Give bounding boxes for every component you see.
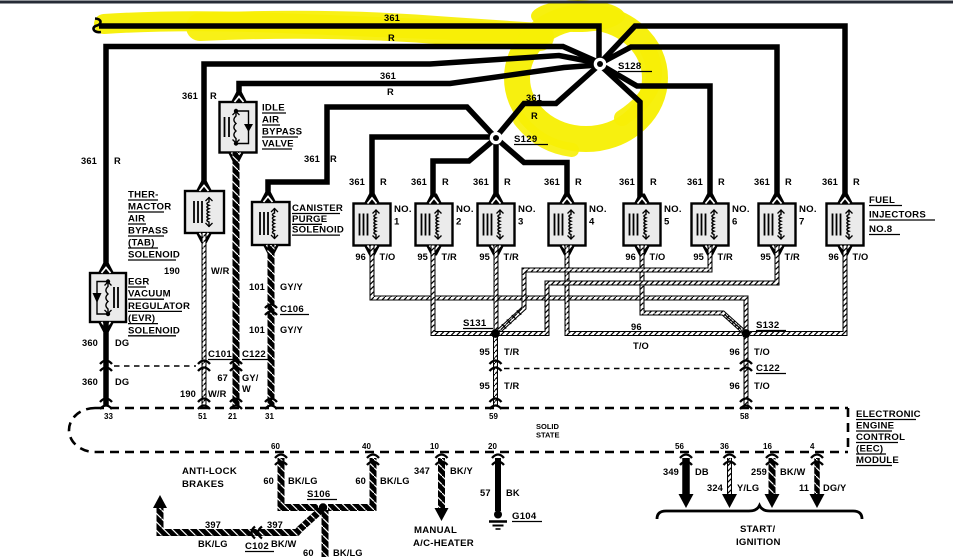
svg-text:R: R [387, 87, 394, 97]
svg-text:361: 361 [81, 156, 97, 166]
svg-text:361: 361 [526, 93, 542, 103]
svg-text:R: R [210, 91, 217, 101]
svg-text:C106: C106 [280, 304, 304, 315]
svg-text:Y/LG: Y/LG [737, 483, 759, 493]
svg-text:33: 33 [104, 412, 113, 421]
svg-text:MACTOR: MACTOR [128, 202, 171, 213]
svg-text:BK/Y: BK/Y [450, 466, 473, 476]
svg-text:SOLENOID: SOLENOID [128, 325, 180, 336]
svg-text:MANUAL: MANUAL [414, 525, 457, 536]
svg-text:361: 361 [182, 91, 198, 101]
svg-text:BK: BK [506, 488, 520, 498]
svg-text:R: R [330, 154, 337, 164]
svg-text:NO.: NO. [394, 204, 412, 215]
svg-text:7: 7 [799, 217, 805, 228]
svg-text:397: 397 [267, 520, 283, 530]
svg-text:IGNITION: IGNITION [736, 537, 781, 548]
svg-text:R: R [650, 177, 657, 187]
svg-text:S129: S129 [514, 134, 537, 145]
svg-text:59: 59 [489, 412, 498, 421]
svg-text:56: 56 [675, 442, 684, 451]
svg-text:96: 96 [625, 252, 636, 262]
svg-text:36: 36 [720, 442, 729, 451]
svg-text:190: 190 [180, 389, 196, 399]
svg-text:S106: S106 [307, 489, 330, 500]
svg-text:BK/W: BK/W [780, 467, 805, 477]
svg-text:G104: G104 [512, 511, 537, 522]
svg-text:R: R [442, 177, 449, 187]
svg-text:C102: C102 [245, 541, 269, 552]
svg-text:DB: DB [695, 467, 709, 477]
svg-text:5: 5 [664, 217, 670, 228]
svg-text:GY/Y: GY/Y [280, 282, 303, 292]
svg-text:R: R [718, 177, 725, 187]
svg-text:REGULATOR: REGULATOR [128, 301, 190, 312]
svg-text:T/O: T/O [853, 252, 869, 262]
svg-text:(EVR): (EVR) [128, 313, 155, 324]
svg-text:T/R: T/R [442, 252, 458, 262]
svg-text:BK/LG: BK/LG [333, 548, 363, 557]
svg-text:349: 349 [663, 467, 679, 477]
svg-text:BK/LG: BK/LG [288, 476, 318, 486]
svg-text:16: 16 [763, 442, 772, 451]
svg-text:GY/: GY/ [242, 373, 259, 383]
svg-text:DG/Y: DG/Y [823, 483, 847, 493]
svg-text:R: R [114, 156, 121, 166]
svg-text:31: 31 [265, 412, 274, 421]
svg-text:NO.: NO. [799, 204, 817, 215]
svg-text:INJECTORS: INJECTORS [869, 210, 926, 221]
svg-text:PURGE: PURGE [292, 214, 328, 225]
svg-text:ELECTRONIC: ELECTRONIC [856, 409, 921, 420]
svg-text:21: 21 [228, 412, 237, 421]
svg-text:R: R [531, 111, 538, 121]
svg-text:R: R [380, 177, 387, 187]
svg-text:VACUUM: VACUUM [128, 289, 171, 300]
svg-text:SOLENOID: SOLENOID [292, 225, 344, 236]
svg-text:T/O: T/O [754, 381, 770, 391]
svg-text:DG: DG [115, 338, 129, 348]
svg-text:361: 361 [822, 177, 838, 187]
svg-text:361: 361 [754, 177, 770, 187]
svg-text:60: 60 [263, 476, 274, 486]
svg-text:BRAKES: BRAKES [182, 479, 224, 490]
svg-text:T/R: T/R [504, 347, 520, 357]
svg-text:361: 361 [349, 177, 365, 187]
svg-text:R: R [575, 177, 582, 187]
svg-text:BK/LG: BK/LG [198, 539, 228, 549]
svg-text:NO.: NO. [518, 204, 536, 215]
svg-text:ENGINE: ENGINE [856, 421, 895, 432]
svg-text:361: 361 [619, 177, 635, 187]
svg-text:60: 60 [303, 548, 314, 557]
svg-text:95: 95 [693, 252, 704, 262]
svg-text:60: 60 [271, 442, 280, 451]
svg-text:324: 324 [707, 483, 724, 493]
svg-text:96: 96 [631, 322, 642, 332]
svg-text:W: W [242, 384, 251, 394]
svg-text:1: 1 [394, 217, 400, 228]
svg-text:CONTROL: CONTROL [856, 432, 905, 443]
svg-text:NO.: NO. [664, 204, 682, 215]
svg-text:T/R: T/R [504, 252, 520, 262]
svg-text:57: 57 [480, 488, 491, 498]
svg-text:101: 101 [249, 325, 265, 335]
svg-text:NO.: NO. [732, 204, 750, 215]
svg-text:96: 96 [828, 252, 839, 262]
svg-text:11: 11 [799, 483, 809, 493]
svg-text:6: 6 [732, 217, 738, 228]
svg-text:R: R [785, 177, 792, 187]
svg-text:BYPASS: BYPASS [128, 226, 169, 237]
svg-text:R: R [504, 177, 511, 187]
svg-text:S131: S131 [463, 318, 487, 329]
svg-text:T/O: T/O [380, 252, 396, 262]
svg-text:W/R: W/R [208, 389, 227, 399]
svg-text:SOLENOID: SOLENOID [128, 250, 180, 261]
svg-text:NO.8: NO.8 [869, 224, 893, 235]
svg-text:95: 95 [479, 381, 490, 391]
svg-text:96: 96 [355, 252, 366, 262]
svg-text:EGR: EGR [128, 277, 150, 288]
svg-text:347: 347 [414, 466, 430, 476]
svg-text:60: 60 [355, 476, 366, 486]
svg-text:361: 361 [544, 177, 560, 187]
svg-text:T/R: T/R [504, 381, 520, 391]
svg-text:96: 96 [729, 381, 740, 391]
svg-text:51: 51 [198, 412, 207, 421]
svg-text:AIR: AIR [262, 115, 279, 126]
svg-text:259: 259 [751, 467, 767, 477]
svg-text:2: 2 [456, 217, 462, 228]
svg-text:10: 10 [430, 442, 439, 451]
svg-text:(TAB): (TAB) [128, 238, 155, 249]
svg-text:STATE: STATE [536, 431, 559, 440]
svg-text:NO.: NO. [589, 204, 607, 215]
svg-text:(EEC): (EEC) [856, 444, 883, 455]
svg-text:AIR: AIR [128, 214, 145, 225]
svg-text:T/O: T/O [650, 252, 666, 262]
svg-text:40: 40 [362, 442, 371, 451]
svg-text:FUEL: FUEL [869, 195, 895, 206]
svg-text:361: 361 [473, 177, 489, 187]
svg-text:W/R: W/R [211, 266, 230, 276]
svg-text:VALVE: VALVE [262, 139, 294, 150]
svg-text:THER-: THER- [128, 190, 159, 201]
svg-text:BK/W: BK/W [271, 539, 296, 549]
svg-text:BYPASS: BYPASS [262, 127, 303, 138]
svg-text:360: 360 [82, 338, 98, 348]
svg-text:20: 20 [488, 442, 497, 451]
svg-text:361: 361 [384, 13, 400, 23]
svg-text:T/R: T/R [718, 252, 734, 262]
svg-text:96: 96 [729, 347, 740, 357]
svg-text:361: 361 [687, 177, 703, 187]
svg-text:190: 190 [164, 266, 180, 276]
svg-text:361: 361 [380, 71, 396, 81]
svg-text:C122: C122 [242, 349, 266, 360]
svg-text:95: 95 [760, 252, 771, 262]
svg-text:C122: C122 [756, 363, 780, 374]
svg-text:95: 95 [479, 252, 490, 262]
svg-text:DG: DG [115, 377, 129, 387]
svg-text:START/: START/ [740, 524, 776, 535]
svg-text:MODULE: MODULE [856, 455, 899, 466]
svg-text:IDLE: IDLE [262, 103, 285, 114]
svg-text:3: 3 [518, 217, 524, 228]
svg-text:T/O: T/O [633, 341, 649, 351]
svg-text:4: 4 [589, 217, 595, 228]
svg-text:58: 58 [740, 412, 749, 421]
svg-text:ANTI-LOCK: ANTI-LOCK [182, 466, 237, 477]
svg-text:R: R [853, 177, 860, 187]
svg-text:CANISTER: CANISTER [292, 203, 343, 214]
svg-text:95: 95 [479, 347, 490, 357]
svg-text:101: 101 [249, 282, 265, 292]
svg-text:A/C-HEATER: A/C-HEATER [413, 538, 474, 549]
svg-text:T/R: T/R [785, 252, 801, 262]
svg-text:361: 361 [304, 154, 320, 164]
svg-text:NO.: NO. [456, 204, 474, 215]
svg-text:361: 361 [411, 177, 427, 187]
svg-text:BK/LG: BK/LG [380, 476, 410, 486]
svg-text:S132: S132 [756, 320, 779, 331]
svg-text:T/O: T/O [754, 347, 770, 357]
svg-text:C101: C101 [208, 349, 232, 360]
svg-text:R: R [388, 33, 395, 43]
svg-text:4: 4 [810, 442, 815, 451]
svg-text:S128: S128 [618, 61, 642, 72]
svg-text:GY/Y: GY/Y [280, 325, 303, 335]
svg-text:360: 360 [82, 377, 98, 387]
svg-text:95: 95 [417, 252, 428, 262]
svg-text:397: 397 [205, 520, 221, 530]
svg-text:67: 67 [217, 373, 228, 383]
